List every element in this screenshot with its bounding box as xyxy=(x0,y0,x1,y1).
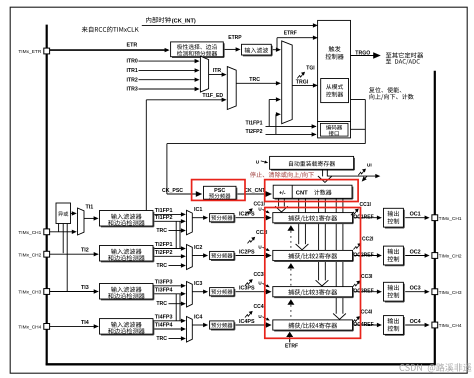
svg-text:ITR0: ITR0 xyxy=(127,59,138,65)
svg-text:U: U xyxy=(256,159,260,165)
svg-text:TI1F_ED: TI1F_ED xyxy=(202,93,223,99)
svg-text:TIMx_CH4: TIMx_CH4 xyxy=(439,323,462,329)
svg-text:CNT: CNT xyxy=(296,191,308,197)
svg-text:ETRF: ETRF xyxy=(285,344,298,350)
svg-text:ITR3: ITR3 xyxy=(127,87,138,93)
svg-text:TI4FP4: TI4FP4 xyxy=(155,323,173,329)
svg-text:IC1: IC1 xyxy=(194,207,202,213)
svg-text:CC2I: CC2I xyxy=(256,230,268,236)
svg-text:TI3FP4: TI3FP4 xyxy=(155,287,173,293)
svg-text:TI2FP2: TI2FP2 xyxy=(246,129,263,135)
svg-text:IC4PS: IC4PS xyxy=(239,319,255,325)
svg-text:CK_CNT: CK_CNT xyxy=(244,188,266,194)
svg-text:TI2FP1: TI2FP1 xyxy=(155,242,173,248)
svg-text:TIMx_CH2: TIMx_CH2 xyxy=(439,254,462,260)
svg-text:TIMx_CH3: TIMx_CH3 xyxy=(439,290,462,296)
svg-text:OC2: OC2 xyxy=(410,249,421,255)
svg-text:ITR1: ITR1 xyxy=(127,68,138,74)
svg-text:TIMx_CH4: TIMx_CH4 xyxy=(18,325,41,331)
svg-text:ITR: ITR xyxy=(213,68,222,74)
svg-text:TRC: TRC xyxy=(156,228,167,234)
svg-text:IC2: IC2 xyxy=(194,245,202,251)
svg-text:TI3: TI3 xyxy=(81,285,89,291)
svg-text:IC3: IC3 xyxy=(194,281,202,287)
svg-text:ETRP: ETRP xyxy=(228,35,242,41)
svg-text:CK_PSC: CK_PSC xyxy=(162,188,183,194)
svg-text:TI1FP1: TI1FP1 xyxy=(155,208,173,214)
svg-text:CC4I: CC4I xyxy=(361,310,373,316)
svg-text:TIMx_CH1: TIMx_CH1 xyxy=(18,230,41,236)
svg-text:CC2I: CC2I xyxy=(362,236,374,242)
svg-text:UI: UI xyxy=(367,163,372,169)
svg-text:CC3I: CC3I xyxy=(254,272,266,278)
svg-text:PSC: PSC xyxy=(214,188,225,194)
svg-text:CC3I: CC3I xyxy=(361,274,373,280)
svg-text:TI4FP3: TI4FP3 xyxy=(155,314,173,320)
svg-text:OC1: OC1 xyxy=(410,212,421,218)
svg-text:TRC: TRC xyxy=(249,77,260,83)
svg-text:ETRF: ETRF xyxy=(284,30,297,36)
svg-text:(CK_INT): (CK_INT) xyxy=(172,18,196,24)
svg-text:CC1I: CC1I xyxy=(254,201,266,207)
svg-text:TI4: TI4 xyxy=(81,320,89,326)
svg-text:OC3: OC3 xyxy=(410,286,421,292)
svg-text:ETR: ETR xyxy=(127,43,138,49)
svg-text:TI2: TI2 xyxy=(81,248,89,254)
svg-text:+/-: +/- xyxy=(279,190,286,196)
svg-text:TI1: TI1 xyxy=(86,204,94,210)
svg-text:TRC: TRC xyxy=(156,301,167,307)
svg-text:TIMx_CH1: TIMx_CH1 xyxy=(439,216,462,222)
svg-text:OC4: OC4 xyxy=(410,319,421,325)
svg-text:TRC: TRC xyxy=(156,336,167,342)
svg-text:TRGI: TRGI xyxy=(296,79,309,85)
svg-text:TI1FP1: TI1FP1 xyxy=(246,121,263,127)
svg-text:IC3PS: IC3PS xyxy=(239,286,255,292)
svg-text:TI2FP2: TI2FP2 xyxy=(155,250,173,256)
svg-text:TIMx_CH3: TIMx_CH3 xyxy=(18,290,41,296)
svg-text:CC4I: CC4I xyxy=(254,304,266,310)
svg-text:TRC: TRC xyxy=(156,263,167,269)
svg-text:TGI: TGI xyxy=(306,65,315,71)
svg-text:TI3FP3: TI3FP3 xyxy=(155,279,173,285)
svg-text:TIMx_ETR: TIMx_ETR xyxy=(18,49,41,55)
svg-text:TIMx_CH2: TIMx_CH2 xyxy=(18,252,41,258)
svg-text:TI1FP2: TI1FP2 xyxy=(155,215,173,221)
svg-text:IC2PS: IC2PS xyxy=(239,249,255,255)
svg-text:ITR2: ITR2 xyxy=(127,77,138,83)
svg-text:IC4: IC4 xyxy=(194,314,202,320)
